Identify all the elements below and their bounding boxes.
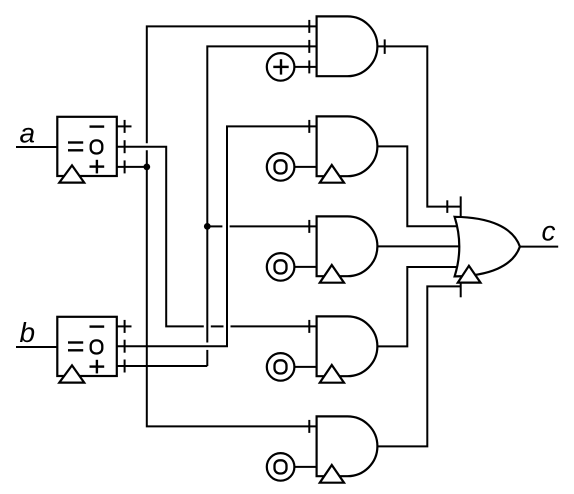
- tick B equal: [124, 340, 126, 353]
- tick A plus: [124, 160, 126, 173]
- label equals in A: [68, 141, 83, 143]
- wire net A-plus vertical lower to gate5: [147, 150, 317, 426]
- AND gate G4: [317, 316, 378, 376]
- triangle clock G4: [320, 365, 344, 383]
- label minus in B: [90, 325, 105, 327]
- tick gate2 in1: [308, 120, 310, 133]
- triangle clock G5: [320, 465, 344, 483]
- label O in B: [91, 340, 103, 353]
- tick B plus: [124, 360, 126, 373]
- svg-text:a: a: [20, 117, 36, 148]
- OR gate U1: [455, 217, 520, 277]
- O symbol S2: [275, 160, 287, 173]
- label plus in B: [90, 365, 105, 367]
- wire OR top entry: [460, 196, 462, 220]
- tick gate1 in2: [308, 40, 310, 53]
- svg-text:c: c: [542, 216, 556, 247]
- label plus in A: [90, 165, 105, 167]
- source circle O S3: [267, 253, 295, 281]
- junction dot A-plus: [143, 164, 150, 171]
- tick gate1 in3: [308, 60, 310, 73]
- wire gate3 input after hop: [230, 225, 317, 227]
- tick B minus: [124, 320, 126, 333]
- triangle clock A: [59, 165, 84, 182]
- label O in A: [91, 140, 103, 153]
- stub S1: [294, 66, 316, 68]
- wire gate1 output down to OR top: [377, 46, 460, 206]
- wire OR output c: [520, 246, 558, 248]
- wire OR bottom entry: [460, 281, 462, 297]
- source circle O S5: [267, 453, 295, 481]
- tick gate4 in1: [308, 320, 310, 333]
- triangle clock B: [59, 365, 84, 382]
- tick OR top input: [446, 200, 448, 213]
- wire B plus output: [117, 365, 208, 367]
- O symbol S3: [275, 260, 287, 273]
- plus symbol S1: [273, 66, 288, 68]
- wire gate3 input from junction: [207, 225, 222, 227]
- source circle O S2: [267, 153, 295, 181]
- wire A plus output: [117, 166, 147, 168]
- AND gate G2: [317, 116, 378, 176]
- triangle clock U1: [458, 266, 481, 283]
- wire B equal output to corner up to gate2: [117, 126, 317, 346]
- AND gate G5: [317, 416, 378, 476]
- tick gate3 in1: [308, 220, 310, 233]
- label minus in A: [90, 125, 105, 127]
- label equals in B: [68, 341, 83, 343]
- wire gate5 output up to OR bottom: [377, 286, 460, 446]
- wire gate4 output to OR: [377, 267, 460, 346]
- wire input b: [16, 346, 57, 348]
- comparator block B body: [57, 317, 117, 376]
- stub S5: [294, 466, 316, 468]
- wire net A-plus vertical: [147, 26, 317, 143]
- wire A equal hop segment: [211, 325, 224, 327]
- triangle clock G3: [320, 265, 344, 283]
- wire input a: [16, 146, 57, 148]
- AND gate G3: [317, 216, 378, 276]
- junction dot B-plus: [204, 223, 211, 230]
- stub S4: [294, 366, 316, 368]
- O symbol S4: [275, 360, 287, 373]
- wire stub B minus output: [117, 325, 132, 327]
- tick A equal: [124, 140, 126, 153]
- O symbol S5: [275, 460, 287, 473]
- tick gate5 in1: [308, 420, 310, 433]
- triangle clock G2: [320, 165, 344, 183]
- svg-text:b: b: [20, 317, 36, 348]
- tick gate1 output: [384, 39, 386, 54]
- AND gate G1: [317, 16, 378, 76]
- wire net B-plus vertical lower: [206, 350, 208, 366]
- source circle plus S1: [267, 53, 295, 81]
- wire A equal to gate4: [231, 325, 317, 327]
- stub S2: [294, 166, 316, 168]
- tick A minus: [124, 120, 126, 133]
- wire gate3 output to OR: [377, 245, 460, 247]
- stub S3: [294, 266, 316, 268]
- source circle O S4: [267, 353, 295, 381]
- wire gate2 output to OR: [377, 146, 460, 226]
- comparator block A body: [57, 117, 117, 176]
- wire net B-plus vertical: [207, 46, 316, 342]
- tick gate1 in1: [308, 20, 310, 33]
- wire A equal output to corner: [117, 147, 204, 327]
- wire stub A minus output: [117, 125, 132, 127]
